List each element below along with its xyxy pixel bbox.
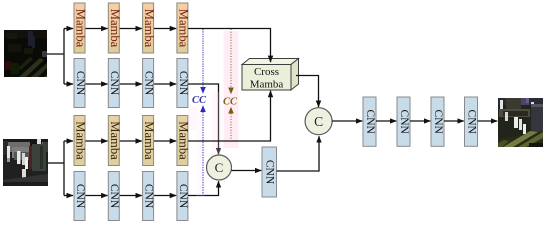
blue dashed concat line upper [202, 29, 204, 87]
wire to output image [478, 120, 498, 122]
wire arrow Mamba2-Mamba3 bottom [119, 140, 142, 142]
svg-text:C: C [215, 160, 224, 175]
wire arrow CNN1-CNN2 bottom [85, 195, 108, 197]
wire arrow CNN3-CNN4 top [154, 83, 177, 85]
wire top Mamba out to Cross Mamba top [188, 29, 271, 63]
svg-text:CNN: CNN [432, 110, 444, 135]
wire input top to splitter [47, 53, 64, 55]
svg-text:CNN: CNN [108, 71, 120, 96]
wire middle CNN up to right circle [277, 136, 320, 171]
block Mamba 1 bottom stream [74, 116, 88, 166]
wire Cross Mamba to right circle [296, 76, 319, 108]
wire arrow Mamba3-Mamba4 top [154, 28, 177, 30]
wire concat circle to middle CNN [232, 170, 262, 172]
concat circle bottom [207, 155, 232, 180]
wire bottom Mamba out to Cross Mamba bottom [188, 91, 271, 141]
svg-text:CC: CC [223, 97, 238, 108]
block Mamba 2 top stream [108, 3, 122, 53]
output fused image [498, 98, 543, 147]
wire arrow Mamba1-Mamba2 top [85, 28, 108, 30]
artifact tint band left of brown CC line [212, 92, 221, 170]
block CNN 1 top stream [74, 59, 86, 108]
wire arrow CNN2-CNN3 bottom [119, 195, 142, 197]
artifact tint band around brown CC line [224, 31, 239, 148]
svg-text:CNN: CNN [364, 110, 376, 135]
block Mamba 2 bottom stream [108, 116, 122, 166]
block CNN 1 bottom stream [74, 172, 86, 221]
block Mamba 1 top stream [74, 3, 88, 53]
svg-text:Mamba: Mamba [142, 121, 156, 160]
splitter bottom [63, 141, 65, 196]
wire bottom CNN out up to concat circle [188, 181, 219, 195]
block CNN 1 fusion chain [363, 97, 376, 146]
brown dashed concat line lower [230, 114, 232, 142]
svg-text:CNN: CNN [74, 184, 86, 209]
svg-text:CNN: CNN [142, 71, 154, 96]
arrow into CNN1 top [64, 83, 73, 85]
block CNN 3 bottom stream [142, 172, 154, 221]
arrow into CNN1 bottom [64, 195, 73, 197]
brown arrow down [228, 88, 234, 95]
arrow into Mamba1 top [64, 28, 73, 30]
block CNN 2 bottom stream [108, 172, 120, 221]
svg-text:CNN: CNN [465, 110, 477, 135]
svg-text:Mamba: Mamba [74, 9, 88, 48]
blue arrow down [200, 87, 206, 94]
svg-text:C: C [314, 114, 323, 129]
artifact tint band left of blue CC label [188, 106, 196, 130]
middle CNN block [262, 147, 277, 197]
svg-text:CNN: CNN [74, 71, 86, 96]
svg-text:Mamba: Mamba [108, 121, 122, 160]
brown arrow up [228, 107, 234, 114]
wire arrow CNN2-CNN3 top [119, 83, 142, 85]
svg-text:CNN: CNN [142, 184, 154, 209]
wire arrow CNN1-CNN2 top [85, 83, 108, 85]
block CNN 4 top stream [177, 59, 189, 108]
block CNN 2 top stream [108, 59, 120, 108]
svg-text:CNN: CNN [398, 110, 410, 135]
block Mamba 3 top stream [142, 3, 156, 53]
brown dashed concat line upper [230, 29, 232, 88]
input image bottom (infrared gray scene) [3, 139, 48, 186]
svg-text:Mamba: Mamba [142, 9, 156, 48]
svg-text:Mamba: Mamba [108, 9, 122, 48]
wire input bottom to splitter [48, 162, 64, 164]
block CNN 2 fusion chain [397, 97, 410, 146]
block CNN 3 fusion chain [431, 97, 444, 146]
svg-text:Cross: Cross [254, 66, 279, 78]
wire arrow Mamba1-Mamba2 bottom [85, 140, 108, 142]
svg-text:CNN: CNN [177, 71, 189, 96]
block CNN 3 top stream [142, 59, 154, 108]
Cross Mamba 3D box [242, 59, 299, 91]
wire arrow chain CNN2-CNN3 [410, 120, 430, 122]
wire right circle to CNN chain [332, 120, 362, 122]
svg-text:CNN: CNN [177, 184, 189, 209]
block CNN 4 fusion chain [465, 97, 478, 146]
input image top (visible dark scene) [4, 30, 47, 77]
artifact tint band around blue CC line [196, 104, 205, 196]
concat circle right [305, 108, 332, 135]
svg-text:Mamba: Mamba [250, 79, 284, 91]
wire top CNN out down to concat circle [188, 84, 219, 154]
wire arrow chain CNN3-CNN4 [444, 120, 464, 122]
wire arrow CNN3-CNN4 bottom [154, 195, 177, 197]
svg-text:CC: CC [192, 95, 207, 106]
svg-text:CNN: CNN [264, 160, 276, 185]
blue arrow up [200, 105, 206, 112]
blue dashed concat line lower [202, 112, 204, 196]
svg-text:CNN: CNN [108, 184, 120, 209]
splitter top [63, 29, 65, 85]
block Mamba 4 top stream [177, 3, 191, 53]
block Mamba 3 bottom stream [142, 116, 156, 166]
svg-text:Mamba: Mamba [74, 121, 88, 160]
block CNN 4 bottom stream [177, 172, 189, 221]
wire arrow Mamba3-Mamba4 bottom [154, 140, 177, 142]
wire arrow Mamba2-Mamba3 top [119, 28, 142, 30]
arrow into Mamba1 bottom [64, 140, 73, 142]
wire arrow chain CNN1-CNN2 [376, 120, 396, 122]
block Mamba 4 bottom stream [177, 116, 191, 166]
